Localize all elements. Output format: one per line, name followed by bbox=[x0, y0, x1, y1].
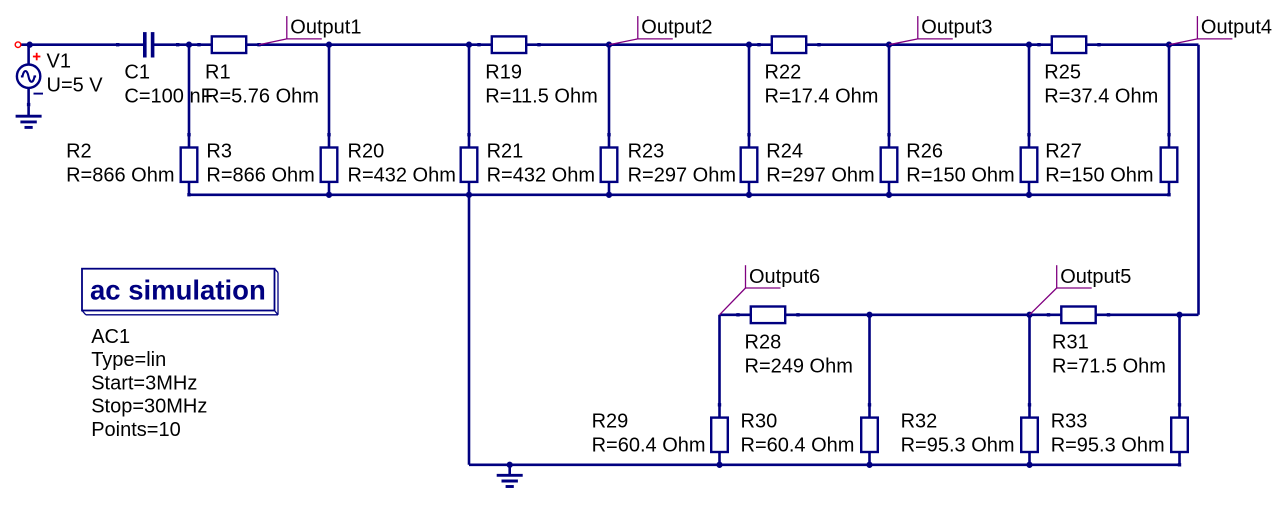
svg-text:R=866 Ohm: R=866 Ohm bbox=[206, 164, 314, 186]
svg-text:C1: C1 bbox=[124, 62, 150, 84]
svg-text:R=866 Ohm: R=866 Ohm bbox=[66, 164, 174, 186]
svg-text:R=95.3 Ohm: R=95.3 Ohm bbox=[901, 434, 1015, 456]
svg-text:Output1: Output1 bbox=[290, 17, 361, 39]
svg-text:U=5 V: U=5 V bbox=[47, 75, 104, 97]
svg-text:R29: R29 bbox=[592, 410, 629, 432]
svg-text:R27: R27 bbox=[1045, 140, 1082, 162]
svg-text:R=432 Ohm: R=432 Ohm bbox=[487, 164, 595, 186]
svg-text:R=11.5 Ohm: R=11.5 Ohm bbox=[485, 86, 597, 108]
svg-text:R=60.4 Ohm: R=60.4 Ohm bbox=[741, 434, 855, 456]
svg-text:Type=lin: Type=lin bbox=[91, 349, 166, 371]
svg-text:R=297 Ohm: R=297 Ohm bbox=[766, 164, 874, 186]
svg-text:AC1: AC1 bbox=[91, 326, 130, 348]
svg-text:R25: R25 bbox=[1044, 62, 1081, 84]
svg-text:C=100 nF: C=100 nF bbox=[124, 86, 212, 108]
svg-text:Output2: Output2 bbox=[641, 17, 712, 39]
svg-text:R=71.5 Ohm: R=71.5 Ohm bbox=[1052, 356, 1166, 378]
svg-text:Stop=30MHz: Stop=30MHz bbox=[91, 396, 207, 418]
svg-text:R=95.3 Ohm: R=95.3 Ohm bbox=[1051, 434, 1165, 456]
svg-text:R=5.76 Ohm: R=5.76 Ohm bbox=[205, 86, 319, 108]
svg-text:R3: R3 bbox=[206, 140, 232, 162]
svg-text:R20: R20 bbox=[348, 140, 385, 162]
svg-text:R=150 Ohm: R=150 Ohm bbox=[906, 164, 1014, 186]
svg-text:R26: R26 bbox=[906, 140, 943, 162]
svg-text:R24: R24 bbox=[766, 140, 803, 162]
svg-text:Points=10: Points=10 bbox=[91, 419, 181, 441]
svg-text:R2: R2 bbox=[66, 140, 92, 162]
svg-text:R23: R23 bbox=[628, 140, 665, 162]
svg-text:R1: R1 bbox=[205, 62, 231, 84]
svg-text:Output5: Output5 bbox=[1060, 266, 1131, 288]
svg-text:R=249 Ohm: R=249 Ohm bbox=[745, 356, 853, 378]
svg-text:ac simulation: ac simulation bbox=[90, 275, 266, 306]
svg-text:R=17.4 Ohm: R=17.4 Ohm bbox=[765, 86, 879, 108]
svg-text:R=60.4 Ohm: R=60.4 Ohm bbox=[592, 434, 706, 456]
svg-text:Output3: Output3 bbox=[921, 17, 992, 39]
svg-text:Output4: Output4 bbox=[1201, 17, 1272, 39]
svg-text:R32: R32 bbox=[901, 410, 938, 432]
svg-text:V1: V1 bbox=[47, 51, 71, 73]
svg-text:Start=3MHz: Start=3MHz bbox=[91, 372, 197, 394]
svg-text:R19: R19 bbox=[485, 62, 522, 84]
svg-text:R28: R28 bbox=[745, 332, 782, 354]
svg-text:R21: R21 bbox=[487, 140, 524, 162]
svg-text:R=37.4 Ohm: R=37.4 Ohm bbox=[1044, 86, 1158, 108]
svg-text:R=432 Ohm: R=432 Ohm bbox=[348, 164, 456, 186]
svg-text:Output6: Output6 bbox=[749, 266, 820, 288]
svg-text:R33: R33 bbox=[1051, 410, 1088, 432]
svg-text:R22: R22 bbox=[765, 62, 802, 84]
svg-text:R31: R31 bbox=[1052, 332, 1089, 354]
svg-text:R30: R30 bbox=[741, 410, 778, 432]
svg-text:R=297 Ohm: R=297 Ohm bbox=[628, 164, 736, 186]
svg-text:R=150 Ohm: R=150 Ohm bbox=[1045, 164, 1153, 186]
